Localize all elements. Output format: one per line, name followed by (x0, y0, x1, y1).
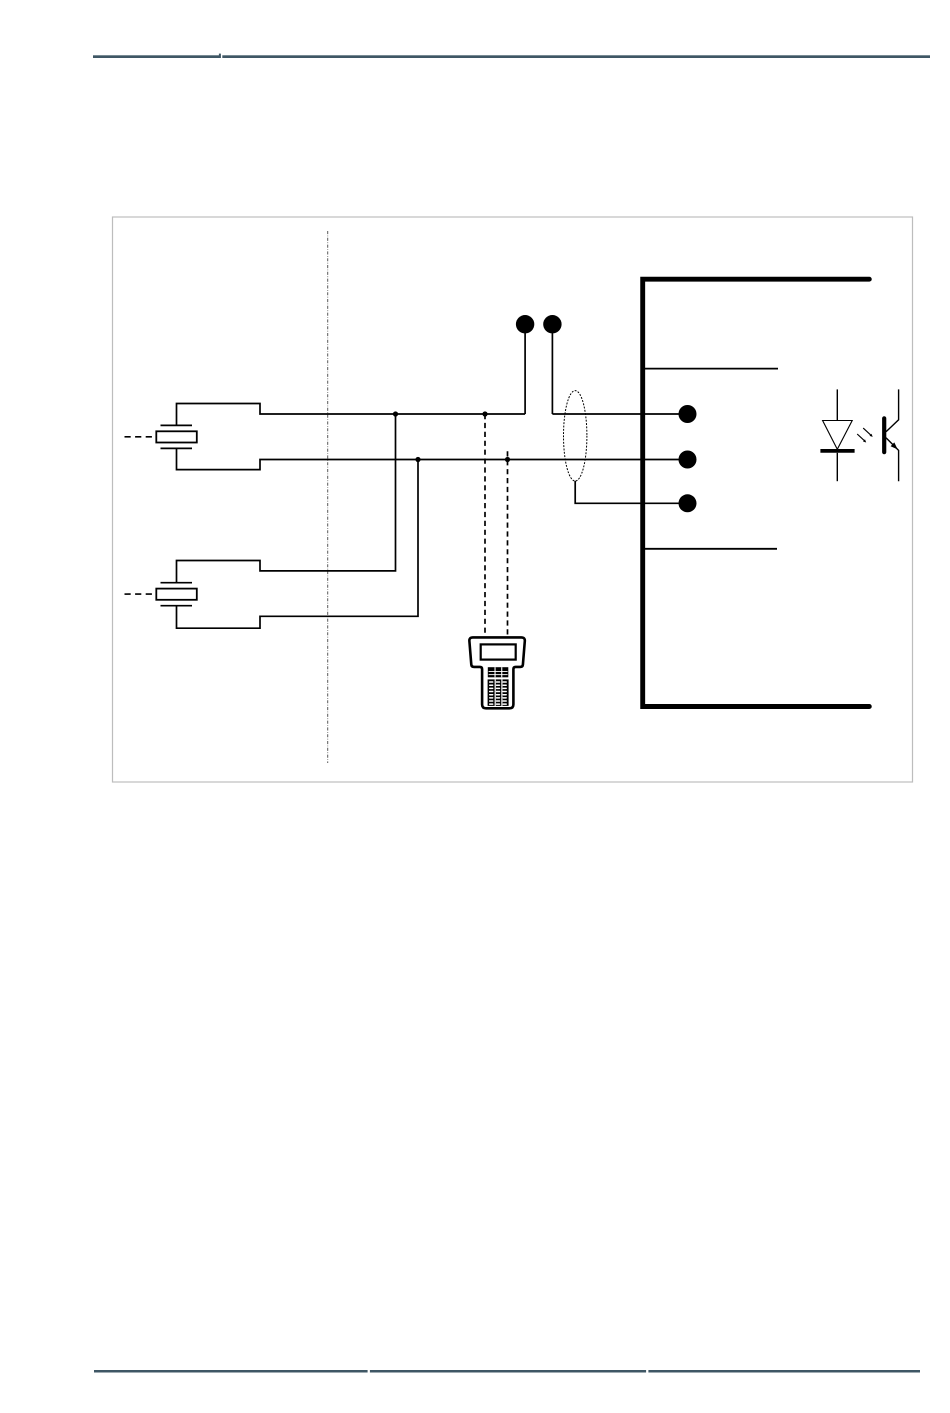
phototransistor Q1 base bar (882, 418, 886, 452)
LED D1 cathode bar (820, 449, 854, 453)
sensor S2 crystal (156, 589, 197, 600)
sensor S1 crystal (156, 431, 197, 442)
HART communicator screen (481, 644, 516, 659)
sensor S2 bottom plate (161, 605, 193, 607)
HART communicator keypad (488, 679, 509, 706)
sensor S2 lead (dashed) (125, 593, 157, 595)
wire TP2 to terminal 1 (552, 413, 687, 415)
terminal 1 (679, 405, 697, 423)
sensor S1 top plate (161, 424, 193, 426)
phototransistor Q1 collector (886, 389, 899, 431)
HART communicator function keys (488, 667, 509, 677)
terminal 3 (679, 494, 697, 512)
LED D1 triangle (823, 421, 853, 450)
HART communicator dashed line 1 (484, 414, 486, 637)
cable shield loop (564, 391, 587, 481)
wire S1- to terminal 2 (177, 448, 688, 469)
header rule (93, 54, 930, 58)
terminal block lower edge (645, 548, 777, 550)
phototransistor Q1 emitter with arrow (886, 438, 899, 481)
HART communicator dashed line 2 (507, 451, 509, 637)
light arrow 2 (857, 434, 866, 443)
hazardous-area boundary (dashed) (327, 231, 329, 763)
amplifier housing U1 (643, 279, 870, 706)
light arrow 1 (863, 428, 873, 437)
sensor S1 lead (dashed) (125, 436, 157, 438)
figure frame (113, 217, 913, 782)
LED D1 cathode wire (836, 453, 838, 481)
junction D (505, 457, 510, 462)
terminal 2 (679, 451, 697, 469)
HART communicator body (469, 637, 524, 708)
test terminal TP1 (516, 315, 534, 414)
LED D1 anode wire (836, 389, 838, 420)
test terminal TP2 (543, 315, 561, 414)
shield wire to terminal 3 (575, 481, 687, 503)
sensor S1 bottom plate (161, 447, 193, 449)
junction A (393, 411, 398, 416)
wire S2+ riser (177, 414, 396, 583)
footer rule (94, 1370, 920, 1373)
terminal block upper edge (645, 368, 778, 370)
sensor S2 top plate (161, 582, 193, 584)
junction C (415, 457, 420, 462)
wire S1+ to loop (177, 404, 526, 426)
wire S2- riser (177, 460, 419, 629)
junction B (482, 411, 487, 416)
